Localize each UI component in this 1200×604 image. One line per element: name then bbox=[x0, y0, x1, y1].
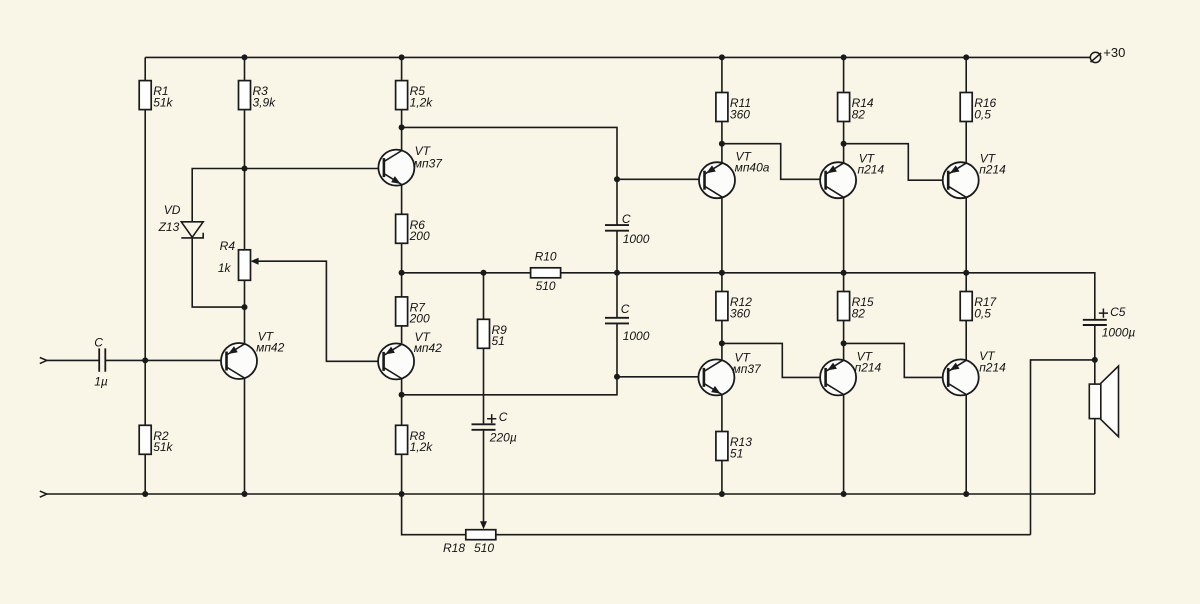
svg-text:Z13: Z13 bbox=[158, 220, 180, 234]
svg-text:мп37: мп37 bbox=[414, 156, 444, 170]
svg-text:82: 82 bbox=[852, 107, 866, 121]
svg-text:1k: 1k bbox=[218, 261, 232, 275]
svg-text:мп42: мп42 bbox=[256, 341, 285, 355]
svg-text:1000: 1000 bbox=[623, 232, 650, 246]
svg-text:220µ: 220µ bbox=[489, 431, 517, 445]
svg-text:п214: п214 bbox=[858, 162, 885, 176]
svg-text:360: 360 bbox=[730, 306, 750, 320]
svg-text:200: 200 bbox=[409, 229, 430, 243]
svg-text:R18: R18 bbox=[443, 541, 465, 555]
svg-text:п214: п214 bbox=[979, 360, 1006, 374]
svg-text:1000: 1000 bbox=[623, 329, 650, 343]
svg-text:C: C bbox=[499, 410, 508, 424]
svg-text:1µ: 1µ bbox=[94, 374, 108, 388]
svg-text:82: 82 bbox=[852, 306, 866, 320]
svg-text:мп42: мп42 bbox=[414, 341, 443, 355]
svg-text:200: 200 bbox=[409, 312, 430, 326]
svg-text:51k: 51k bbox=[153, 440, 173, 454]
svg-text:+30: +30 bbox=[1103, 45, 1125, 60]
svg-text:мп40а: мп40а bbox=[735, 160, 770, 174]
svg-text:3,9k: 3,9k bbox=[253, 95, 277, 109]
svg-text:п214: п214 bbox=[979, 163, 1006, 177]
svg-text:C5: C5 bbox=[1110, 305, 1126, 319]
svg-text:1,2k: 1,2k bbox=[410, 440, 434, 454]
svg-text:51: 51 bbox=[730, 446, 743, 460]
svg-text:1,2k: 1,2k bbox=[410, 95, 434, 109]
svg-text:510: 510 bbox=[536, 279, 556, 293]
svg-text:C: C bbox=[622, 212, 631, 226]
svg-text:C: C bbox=[621, 302, 630, 316]
svg-text:C: C bbox=[94, 336, 103, 350]
svg-text:510: 510 bbox=[474, 541, 494, 555]
svg-text:0,5: 0,5 bbox=[974, 107, 991, 121]
svg-text:VD: VD bbox=[164, 203, 181, 217]
svg-text:0,5: 0,5 bbox=[974, 306, 991, 320]
svg-text:51k: 51k bbox=[153, 95, 173, 109]
svg-text:R10: R10 bbox=[535, 250, 557, 264]
svg-text:п214: п214 bbox=[855, 361, 882, 375]
svg-text:360: 360 bbox=[730, 107, 750, 121]
svg-text:мп37: мп37 bbox=[733, 362, 763, 376]
svg-text:R4: R4 bbox=[220, 239, 236, 253]
svg-text:1000µ: 1000µ bbox=[1102, 326, 1136, 340]
svg-text:51: 51 bbox=[492, 334, 505, 348]
